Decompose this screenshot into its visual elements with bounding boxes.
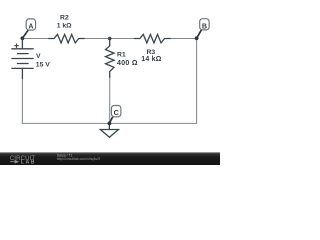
svg-text:14 kΩ: 14 kΩ: [141, 56, 161, 63]
svg-text:V: V: [36, 53, 41, 60]
wire: R2 to R3: [84, 38, 136, 40]
ground: [100, 123, 118, 137]
battery V: [12, 39, 33, 79]
svg-text:A: A: [28, 23, 33, 31]
resistor R1 zigzag with leads: [106, 39, 115, 78]
wire: R3 to top-right corner: [170, 38, 197, 40]
wire: right side vertical: [196, 39, 198, 124]
node A callout: [21, 19, 36, 40]
svg-text:R3: R3: [146, 49, 155, 56]
svg-text:400 Ω: 400 Ω: [117, 60, 138, 67]
svg-text:LAB: LAB: [21, 160, 36, 165]
node B callout: [195, 19, 209, 40]
wire: bottom: [22, 122, 196, 124]
junction node R1 top: [108, 37, 112, 41]
svg-text:B: B: [202, 22, 207, 30]
svg-text:R1: R1: [117, 52, 126, 59]
CircuitLab logo: [10, 155, 36, 166]
wire: battery bottom to bottom-left corner: [21, 78, 23, 123]
svg-text:15 V: 15 V: [36, 62, 50, 69]
wire: R1 bottom lead to bottom wire: [109, 77, 111, 124]
svg-text:http://circuitlab.com/c/bq3u2f: http://circuitlab.com/c/bq3u2f: [57, 157, 100, 161]
svg-text:1 kΩ: 1 kΩ: [57, 22, 72, 29]
svg-text:R2: R2: [60, 15, 69, 22]
node C callout: [108, 106, 121, 126]
resistor R3: [135, 34, 170, 43]
resistor R2: [49, 34, 84, 43]
svg-text:C: C: [114, 109, 119, 117]
wire: battery top to R2: [22, 38, 49, 40]
battery plus sign: [14, 44, 18, 48]
